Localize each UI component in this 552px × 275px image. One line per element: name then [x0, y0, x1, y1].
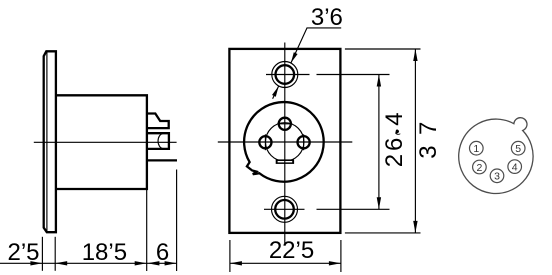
- front view: pin hole top: [277, 118, 292, 130]
- svg-text:2’5: 2’5: [7, 239, 39, 266]
- svg-text:4: 4: [381, 112, 408, 125]
- svg-text:3: 3: [415, 145, 442, 158]
- dimension text 2'5: [7, 239, 39, 266]
- front view: pin-circle (thin): [266, 123, 304, 161]
- dimension text 6: [156, 239, 169, 266]
- dimension line (side view bottom): [0, 261, 177, 265]
- dimension line 26'4: [377, 75, 381, 210]
- svg-text:4: 4: [512, 161, 518, 173]
- svg-text:26: 26: [381, 135, 408, 168]
- dimension extension lines (side view bottom): [42, 170, 176, 272]
- side view: rear contact pin: [147, 133, 169, 149]
- side view: flange plate: [44, 51, 56, 232]
- front view: latch slot: [276, 159, 294, 164]
- svg-text:1: 1: [473, 143, 479, 155]
- front view: panel plate: [229, 49, 340, 233]
- side view: solder terminal: [147, 159, 177, 161]
- svg-text:3’6: 3’6: [311, 4, 343, 31]
- front view: pin hole right: [298, 134, 310, 150]
- front view: horizontal centerline: [218, 141, 352, 143]
- svg-text:3: 3: [494, 171, 500, 183]
- svg-text:2: 2: [476, 162, 482, 174]
- svg-text:7: 7: [415, 122, 442, 135]
- svg-text:22’5: 22’5: [269, 237, 314, 264]
- dimension text 22'5: [269, 237, 314, 264]
- front view: pin hole left: [259, 134, 271, 150]
- dimension text 18'5: [82, 239, 127, 266]
- extension lines for 26'4: [317, 75, 390, 210]
- side view: horizontal centerline: [34, 141, 177, 143]
- dimension text 37 (rotated): [415, 122, 442, 159]
- side view: latch tab: [147, 114, 169, 129]
- pinout: pin 1: [470, 141, 484, 155]
- side view: connector body: [56, 95, 147, 189]
- svg-text:5: 5: [515, 143, 521, 155]
- front view: bottom screw hole: [264, 196, 305, 222]
- svg-text:6: 6: [156, 239, 169, 266]
- extension lines for 22'5: [230, 240, 341, 272]
- extension lines for 37: [345, 49, 421, 233]
- pinout: pin 2: [473, 160, 487, 174]
- dimension line 22'5: [230, 261, 341, 265]
- front view: vertical centerline: [284, 43, 286, 244]
- front view: XLR shell circle with keyway notch: [244, 102, 324, 182]
- leader 3'6 to screw hole: [272, 28, 341, 99]
- svg-text:18’5: 18’5: [82, 239, 127, 266]
- pinout: connector face outline with boss: [459, 118, 533, 194]
- dimension line 37: [413, 49, 417, 233]
- front view: top screw hole: [266, 62, 310, 88]
- pinout: pin 5: [511, 141, 525, 155]
- dimension text 3'6: [311, 4, 343, 31]
- pinout: pin 3: [490, 169, 504, 183]
- pinout: pin 4: [508, 160, 522, 174]
- dimension text 26'4 (rotated): [381, 112, 408, 167]
